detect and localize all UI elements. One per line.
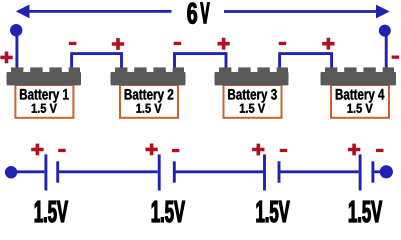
label cell 4 voltage 1.5V bbox=[349, 201, 382, 223]
label cell 1 voltage 1.5V bbox=[35, 201, 68, 223]
wire: jumper Battery 3 to Battery 4 bbox=[280, 54, 332, 69]
label Battery 2 voltage 1.5 V bbox=[136, 104, 161, 113]
label 6 V total voltage bbox=[188, 3, 210, 24]
wire: right dot to Battery 4 - terminal bbox=[385, 31, 388, 69]
label box Battery 2 bbox=[120, 85, 178, 118]
wire: cell 2 to cell 3 bbox=[174, 170, 263, 173]
label Battery 4 name bbox=[336, 89, 385, 103]
minus sign above Battery 3 right terminal bbox=[279, 42, 287, 45]
wire: cell 4 to right dot bbox=[373, 170, 386, 173]
wire: top arrow shaft left segment bbox=[26, 10, 172, 13]
label box Battery 1 bbox=[15, 85, 73, 118]
minus sign above cell 2 bbox=[172, 149, 180, 152]
label Battery 2 name bbox=[125, 89, 174, 103]
battery B1 body (gray cell pack) bbox=[7, 67, 82, 85]
node: right terminal dot bbox=[379, 25, 391, 37]
plus sign above Battery 3 left terminal bbox=[217, 38, 229, 50]
cell 3 positive plate (long) bbox=[263, 154, 266, 190]
battery B2 body (gray cell pack) bbox=[111, 67, 186, 85]
cell 3 negative plate (short) bbox=[278, 161, 281, 182]
label Battery 4 voltage 1.5 V bbox=[348, 104, 373, 113]
label cell 3 voltage 1.5V bbox=[257, 201, 290, 223]
plus sign above Battery 2 left terminal bbox=[112, 38, 124, 50]
cell 2 negative plate (short) bbox=[173, 161, 176, 182]
label cell 2 voltage 1.5V bbox=[152, 201, 185, 223]
wire: left dot to cell 1 bbox=[11, 170, 44, 173]
wire: cell 3 to cell 4 bbox=[279, 170, 359, 173]
left arrowhead of 6V span bbox=[16, 5, 30, 19]
wire: cell 1 to cell 2 bbox=[58, 170, 158, 173]
label Battery 3 name bbox=[228, 89, 277, 103]
wire: top arrow shaft right segment bbox=[224, 10, 379, 13]
minus sign above Battery 2 right terminal bbox=[174, 42, 182, 45]
label box Battery 4 bbox=[331, 85, 389, 118]
cell 4 positive plate (long) bbox=[359, 154, 362, 190]
wire: left dot to Battery 1 + terminal bbox=[15, 30, 18, 69]
cell 2 positive plate (long) bbox=[158, 154, 161, 190]
node: schematic left terminal dot bbox=[5, 166, 17, 178]
label box Battery 3 bbox=[224, 85, 282, 118]
node: schematic right terminal dot bbox=[380, 165, 393, 178]
battery B4 body (gray cell pack) bbox=[321, 67, 397, 85]
minus sign above cell 4 bbox=[376, 149, 384, 152]
cell 4 negative plate (short) bbox=[371, 161, 374, 182]
plus sign at left end (Battery 1 +) bbox=[0, 52, 12, 64]
wire: jumper Battery 1 to Battery 2 bbox=[72, 54, 122, 69]
node: left terminal dot bbox=[10, 24, 22, 36]
plus sign above Battery 4 left terminal bbox=[322, 38, 334, 50]
label Battery 1 voltage 1.5 V bbox=[32, 104, 57, 113]
battery B3 body (gray cell pack) bbox=[215, 67, 289, 85]
cell 1 negative plate (short) bbox=[56, 161, 59, 182]
wire: jumper Battery 2 to Battery 3 bbox=[175, 54, 227, 69]
label Battery 1 name bbox=[20, 89, 69, 103]
minus sign at right end (Battery 4 -) bbox=[392, 56, 400, 59]
minus sign above cell 3 bbox=[280, 149, 288, 152]
cell 1 positive plate (long) bbox=[44, 154, 47, 190]
minus sign above cell 1 bbox=[58, 149, 65, 152]
minus sign above Battery 1 right terminal bbox=[69, 42, 77, 45]
label Battery 3 voltage 1.5 V bbox=[240, 104, 265, 113]
plus sign above cell 1 bbox=[31, 144, 43, 156]
plus sign above cell 4 bbox=[348, 144, 360, 156]
plus sign above cell 2 bbox=[145, 144, 157, 156]
plus sign above cell 3 bbox=[252, 144, 264, 156]
right arrowhead of 6V span bbox=[376, 5, 390, 19]
